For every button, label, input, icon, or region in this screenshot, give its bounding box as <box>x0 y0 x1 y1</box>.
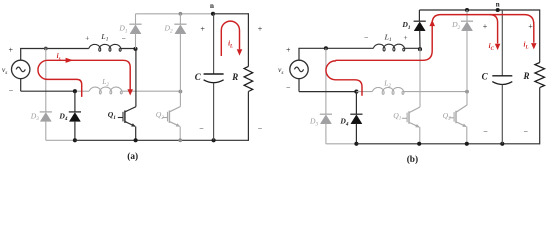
node L1/D1/Q1 junction <box>133 47 137 51</box>
wire L2 right (b) <box>356 91 372 93</box>
node rail mid2 / Q2 leg <box>179 90 183 94</box>
svg-text:D2: D2 <box>164 24 173 35</box>
label D1 (b) <box>401 20 410 31</box>
ac source v_s (b) <box>290 60 308 78</box>
label + L1 <box>85 33 89 42</box>
diode D1 (b) <box>414 21 426 31</box>
node D4 tap <box>73 89 77 93</box>
label D4 <box>58 111 67 122</box>
wire rail mid2 to L2 <box>75 90 89 92</box>
label v_s <box>2 65 7 76</box>
svg-text:+: + <box>528 22 533 31</box>
node D2 top (b) <box>465 8 469 12</box>
diode D1 top wire <box>135 14 137 24</box>
svg-text:−: − <box>286 83 291 92</box>
label L1 <box>100 32 108 43</box>
svg-text:D2: D2 <box>451 20 460 31</box>
wire Q1 emitter <box>135 127 137 141</box>
svg-text:L2: L2 <box>101 77 109 88</box>
wire L2 to Q2 leg (b) <box>402 91 467 93</box>
transistor Q1 <box>118 107 136 127</box>
node D4 tap (b) <box>354 90 358 94</box>
diode D3 anode wire (b) <box>325 124 327 144</box>
label Q2 (b) <box>443 111 451 122</box>
svg-text:C: C <box>195 72 202 82</box>
wire Q1 emitter (b) <box>419 127 421 144</box>
svg-text:R: R <box>522 71 529 81</box>
current arrow i_C down (b) <box>495 44 501 50</box>
node n <box>211 12 215 16</box>
inductor L2 <box>89 87 122 94</box>
label C - (b) <box>483 127 488 136</box>
svg-text:+: + <box>483 22 488 31</box>
label D2 (b) <box>451 20 460 31</box>
wire top rail (b) <box>419 9 539 11</box>
current path to R (b) <box>490 15 534 43</box>
wire capacitor bottom <box>213 83 215 141</box>
node D3 tap (b) <box>324 46 328 50</box>
diode D3 <box>40 112 52 122</box>
inductor L2 (b) <box>372 88 404 95</box>
ac source v_s <box>12 60 30 78</box>
wire L1 to leg <box>119 48 135 50</box>
transistor Q2 <box>162 107 180 127</box>
resistor R (b) <box>535 63 545 88</box>
svg-text:iL: iL <box>523 41 528 51</box>
current arrow up D1 (b) <box>429 20 435 26</box>
wire source bottom <box>20 79 22 92</box>
svg-text:+: + <box>8 46 13 55</box>
current arrow i_L down (b) <box>531 43 537 49</box>
svg-text:−: − <box>364 33 368 42</box>
label C <box>195 72 202 82</box>
svg-text:L1: L1 <box>384 32 392 43</box>
svg-text:−: − <box>199 124 204 133</box>
source - polarity <box>9 86 14 95</box>
label C - <box>199 124 204 133</box>
svg-text:Q1: Q1 <box>108 110 116 121</box>
wire Q2 emitter <box>179 127 181 141</box>
diode D3 cathode wire <box>45 49 47 112</box>
svg-text:−: − <box>258 124 263 133</box>
diode D2 top wire (b) <box>466 10 468 21</box>
label i_s <box>57 52 61 62</box>
svg-text:D1: D1 <box>118 24 127 35</box>
label i_L <box>228 40 233 50</box>
node L1/D1/Q1 junction (b) <box>418 47 422 51</box>
source - polarity (b) <box>286 83 291 92</box>
svg-text:−: − <box>9 86 14 95</box>
wire rail mid2 left (b) <box>299 91 356 93</box>
label - L1 <box>121 34 125 43</box>
node bottom D4 <box>73 138 77 142</box>
wire resistor top <box>247 13 249 66</box>
wire top rail gray <box>136 13 214 15</box>
wire resistor bottom (b) <box>539 88 541 145</box>
wire resistor bottom <box>247 92 249 141</box>
label Q2 <box>156 110 164 121</box>
label i_L (b) <box>523 41 528 51</box>
inductor L1 (b) <box>373 44 404 51</box>
svg-text:+: + <box>286 45 291 54</box>
svg-text:D3: D3 <box>30 111 39 122</box>
diode D3 (b) <box>320 114 332 124</box>
svg-text:−: − <box>483 127 488 136</box>
current path snake top (b) <box>335 15 497 61</box>
svg-text:−: − <box>121 34 125 43</box>
current loop i_L <box>221 21 239 56</box>
label D4 (b) <box>339 117 348 128</box>
diode D1 <box>129 24 141 34</box>
caption (b) <box>407 154 418 165</box>
diode D3 anode wire <box>45 121 47 140</box>
node bottom D4 (b) <box>354 142 358 146</box>
svg-text:D4: D4 <box>339 117 348 128</box>
label R - (b) <box>524 127 529 136</box>
wire bottom rail gray (b) <box>326 143 357 145</box>
diode D4 anode wire <box>74 121 76 140</box>
svg-text:(b): (b) <box>407 154 418 165</box>
wire top rail black <box>213 13 248 15</box>
current path i_s loop <box>38 60 130 97</box>
diode D3 cathode wire (b) <box>325 48 327 114</box>
wire L1 to leg (b) <box>403 47 420 49</box>
current path main loop (b) <box>326 60 362 95</box>
current arrow i_s down <box>127 89 133 95</box>
svg-text:iL: iL <box>228 40 233 50</box>
label C + <box>200 25 205 34</box>
svg-text:Q2: Q2 <box>443 111 451 122</box>
wire top rail left drop (b) <box>418 10 420 21</box>
svg-text:iC: iC <box>489 42 495 52</box>
label - L1 (b) <box>364 33 368 42</box>
node rail mid2 / Q2 leg (b) <box>465 90 469 94</box>
wire capacitor top <box>213 14 215 74</box>
node D3 tap <box>44 47 48 51</box>
wire Q2 emitter (b) <box>466 127 468 144</box>
capacitor C plate bottom <box>204 80 224 83</box>
svg-text:C: C <box>482 72 489 82</box>
diode D2 <box>174 24 186 34</box>
svg-text:+: + <box>403 33 407 42</box>
svg-text:+: + <box>200 25 205 34</box>
label L1 (b) <box>384 32 392 43</box>
diode D1 anode wire (b) <box>419 31 421 49</box>
label D3 (b) <box>309 117 318 128</box>
svg-text:(a): (a) <box>127 151 138 162</box>
label n <box>210 2 214 10</box>
label C + (b) <box>483 22 488 31</box>
wire bottom rail black (b) <box>356 143 539 145</box>
resistor R <box>244 66 253 91</box>
node D2 top <box>179 12 183 16</box>
label D3 <box>30 111 39 122</box>
diode D2 top wire <box>179 14 181 24</box>
source + polarity (b) <box>286 45 291 54</box>
diode D1 anode wire <box>135 34 137 49</box>
label Q1 (b) <box>393 111 401 122</box>
svg-text:vs: vs <box>278 65 283 76</box>
wire rail mid2 left <box>21 90 75 92</box>
label L2 <box>101 77 109 88</box>
wire Q1 collector (b) <box>419 48 421 107</box>
current arrow i_L down <box>237 49 243 55</box>
label R + <box>258 25 263 34</box>
node bottom Q1 (b) <box>417 142 421 146</box>
source + polarity <box>8 46 13 55</box>
label Q1 <box>108 110 116 121</box>
node bottom Q2 <box>178 138 182 142</box>
svg-text:n: n <box>496 1 500 9</box>
svg-text:D4: D4 <box>58 111 67 122</box>
svg-text:D3: D3 <box>309 117 318 128</box>
svg-text:R: R <box>231 72 238 82</box>
diode D4 (b) <box>350 114 362 124</box>
wire source top (b) <box>298 48 300 60</box>
wire source bottom (b) <box>298 79 300 92</box>
svg-text:D1: D1 <box>401 20 410 31</box>
svg-text:n: n <box>210 2 214 10</box>
label n (b) <box>496 1 500 9</box>
node bottom C (b) <box>500 142 504 146</box>
diode D4 <box>69 112 81 122</box>
label R (b) <box>522 71 529 81</box>
diode D4 cathode wire (b) <box>355 92 357 115</box>
svg-text:Q1: Q1 <box>393 111 401 122</box>
capacitor C plate top (b) <box>492 75 512 77</box>
wire L2 to Q2 leg <box>121 90 181 92</box>
diode D4 anode wire (b) <box>355 124 357 144</box>
svg-text:L1: L1 <box>100 32 108 43</box>
label v_s (b) <box>278 65 283 76</box>
svg-text:+: + <box>258 25 263 34</box>
label R - <box>258 124 263 133</box>
transistor Q1 (b) <box>402 107 420 127</box>
diode D4 cathode wire <box>74 91 76 112</box>
inductor L1 <box>89 44 121 51</box>
transistor Q2 (b) <box>449 105 467 127</box>
wire Q2 collector <box>179 91 181 106</box>
label L2 (b) <box>383 78 391 89</box>
caption (a) <box>127 151 138 162</box>
wire bottom rail black <box>75 139 249 141</box>
label D2 <box>164 24 173 35</box>
label D1 <box>118 24 127 35</box>
wire source top <box>20 49 22 61</box>
wire capacitor bottom (b) <box>501 85 503 144</box>
svg-text:+: + <box>85 33 89 42</box>
capacitor C plate top <box>204 73 224 75</box>
wire bottom rail gray <box>46 139 75 141</box>
svg-text:vs: vs <box>2 65 7 76</box>
capacitor C plate bottom (b) <box>492 82 512 85</box>
wire rail mid1 left <box>20 48 89 50</box>
node bottom Q2 (b) <box>465 142 469 146</box>
diode D2 (b) <box>461 21 473 31</box>
node n (b) <box>496 8 500 12</box>
node bottom Q1 <box>134 138 138 142</box>
wire Q2 collector (b) <box>466 92 468 105</box>
label R + (b) <box>528 22 533 31</box>
wire Q1 collector <box>135 49 137 107</box>
current arrow i_s <box>66 58 74 63</box>
wire capacitor top (b) <box>501 10 503 76</box>
node bottom C <box>212 138 216 142</box>
label R <box>231 72 238 82</box>
diode D2 anode wire (b) <box>466 31 468 92</box>
diode D2 anode wire <box>179 34 181 92</box>
svg-text:−: − <box>524 127 529 136</box>
label C (b) <box>482 72 489 82</box>
label i_C (b) <box>489 42 495 52</box>
wire rail mid1 (b) <box>298 47 373 49</box>
label + L1 (b) <box>403 33 407 42</box>
svg-text:Q2: Q2 <box>156 110 164 121</box>
wire resistor top (b) <box>539 9 541 62</box>
